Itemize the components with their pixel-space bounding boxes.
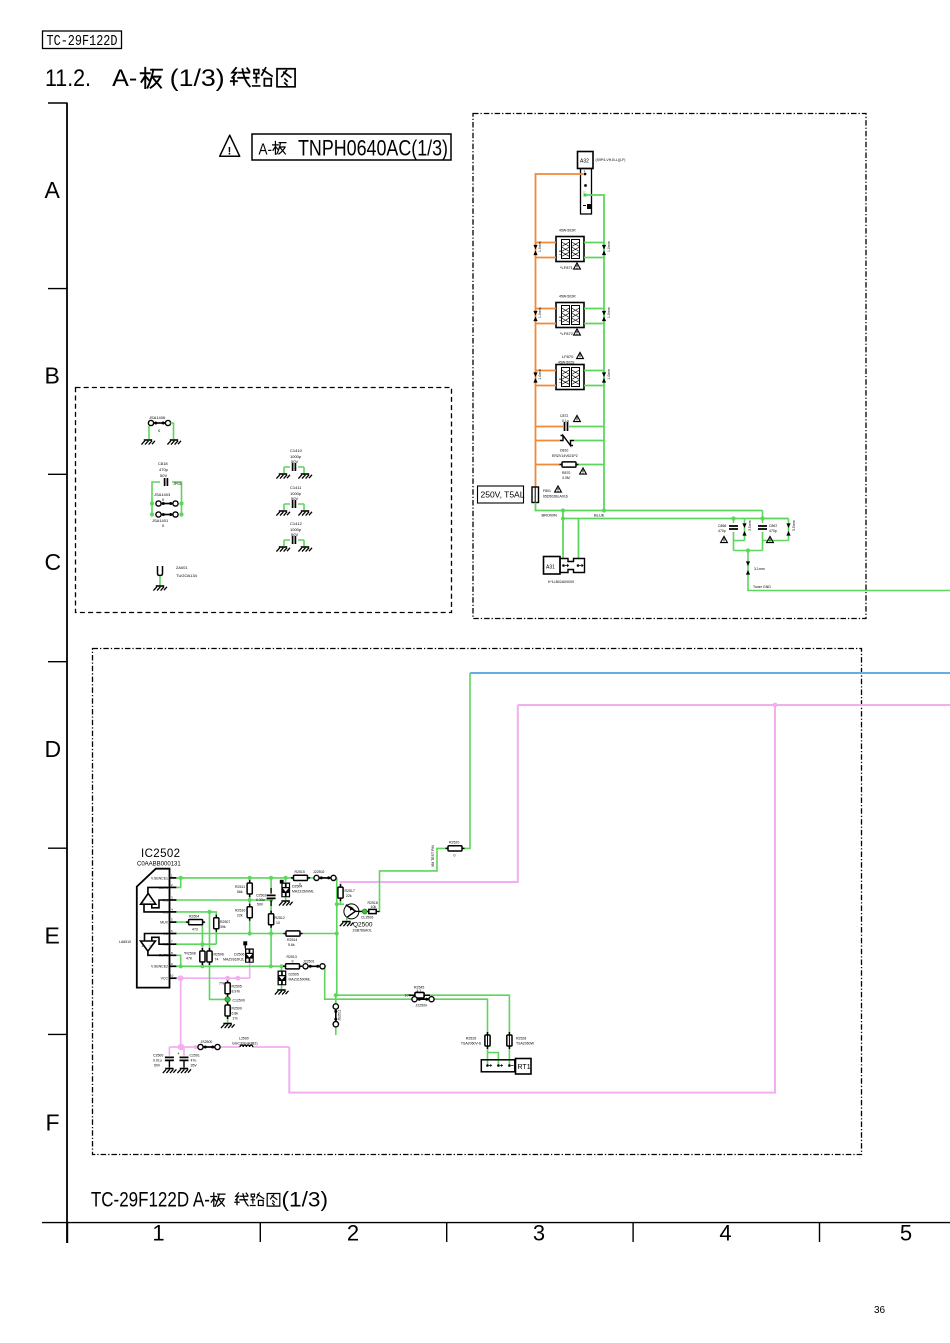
svg-text:TSA2060V-S: TSA2060V-S xyxy=(461,1042,482,1046)
resistor R2514 xyxy=(284,931,303,947)
svg-text:47u: 47u xyxy=(191,1059,197,1063)
svg-text:R2514: R2514 xyxy=(287,938,297,942)
svg-text:+: + xyxy=(177,1051,180,1056)
svg-text:1.0mm: 1.0mm xyxy=(538,241,542,252)
capacitor C2500 xyxy=(153,1047,176,1073)
svg-text:MAZ31500ML: MAZ31500ML xyxy=(292,890,314,894)
connector RT1 xyxy=(481,1059,531,1075)
svg-text:473: 473 xyxy=(192,928,198,932)
green nets around IC2502 xyxy=(176,673,509,1066)
capacitor C866 branch xyxy=(718,516,752,550)
svg-text:R2510: R2510 xyxy=(235,909,245,913)
resistor R870 xyxy=(536,462,605,480)
svg-text:!: ! xyxy=(228,146,232,158)
wire OUT1 riser xyxy=(176,878,180,888)
svg-text:A-: A- xyxy=(259,141,273,158)
pad CL2506 xyxy=(361,909,373,920)
pin names xyxy=(151,876,169,980)
ground xyxy=(279,901,293,906)
wire to A31 pin1 xyxy=(562,511,564,559)
IC2502 audio amp xyxy=(119,848,181,988)
svg-text:0: 0 xyxy=(454,854,456,858)
svg-text:C818: C818 xyxy=(158,461,168,466)
svg-text:2: 2 xyxy=(347,1221,359,1246)
svg-text:10%: 10% xyxy=(405,994,412,998)
svg-text:1: 1 xyxy=(152,1221,164,1246)
svg-text:3.5mm: 3.5mm xyxy=(748,520,752,531)
svg-text:22k: 22k xyxy=(237,914,243,918)
svg-text:J22501: J22501 xyxy=(303,960,315,964)
svg-text:5.6k: 5.6k xyxy=(288,943,295,947)
jumper J22500 xyxy=(412,997,434,1008)
svg-text:50V: 50V xyxy=(160,473,167,478)
dash-dot enclosure xyxy=(93,649,862,1155)
jumper J22502 xyxy=(313,870,336,881)
svg-text:C867: C867 xyxy=(769,524,777,528)
svg-text:R2517: R2517 xyxy=(345,889,355,893)
svg-text:MAZ9162K2L: MAZ9162K2L xyxy=(223,958,244,962)
wire taps LF870 xyxy=(536,371,557,386)
svg-text:R2512: R2512 xyxy=(275,916,285,920)
resistor R2510 xyxy=(235,904,252,921)
svg-text:C0AABB000131: C0AABB000131 xyxy=(137,862,181,868)
svg-text:470p: 470p xyxy=(159,467,169,472)
svg-text:1.0mm: 1.0mm xyxy=(607,307,611,318)
svg-text:TC-29F122D: TC-29F122D xyxy=(47,33,118,50)
wire R2517 tail xyxy=(337,897,341,904)
resistor R2512 xyxy=(269,911,285,928)
resistor R2508 xyxy=(184,948,205,965)
op-amp 1 (apex up) xyxy=(141,893,156,904)
capacitor C2501 xyxy=(177,1047,200,1073)
svg-text:F: F xyxy=(46,1110,60,1136)
svg-text:GGC33G(A3B2): GGC33G(A3B2) xyxy=(232,1042,257,1046)
svg-text:*LF871: *LF871 xyxy=(560,265,574,270)
capacitor C2502 xyxy=(256,888,276,907)
pin stubs xyxy=(170,878,177,978)
net +X.2 xyxy=(176,933,336,935)
svg-text:2A001: 2A001 xyxy=(176,565,188,570)
svg-text:45W-502R: 45W-502R xyxy=(559,229,576,233)
svg-text:47K: 47K xyxy=(186,957,193,961)
svg-text:JS2500: JS2500 xyxy=(201,1040,213,1044)
svg-text:A32: A32 xyxy=(580,159,589,165)
svg-text:IC2502: IC2502 xyxy=(141,848,180,860)
wire taps LF872 xyxy=(536,309,557,324)
wire blue feed xyxy=(563,518,789,520)
resistor R2520 xyxy=(446,841,465,858)
node xyxy=(561,516,565,520)
capacitor C818 with jumpers JSA1403 JSA1401 xyxy=(150,461,184,528)
svg-text:R2515: R2515 xyxy=(295,870,305,874)
svg-text:-X.1: -X.1 xyxy=(162,898,168,902)
svg-text:JS2511: JS2511 xyxy=(338,1009,342,1021)
ground xyxy=(276,511,290,516)
wire OUT2 riser xyxy=(176,955,180,966)
svg-text:10k: 10k xyxy=(371,905,377,909)
svg-text:R2520: R2520 xyxy=(449,841,459,845)
svg-text:R2506: R2506 xyxy=(214,953,224,957)
wire D2504 drop xyxy=(285,878,287,882)
svg-text:C1412: C1412 xyxy=(290,521,303,526)
svg-text:B: B xyxy=(45,363,60,389)
svg-text:C12500: C12500 xyxy=(233,999,245,1003)
zener pack D2505 xyxy=(275,971,311,995)
svg-text:TC-29F122D A-: TC-29F122D A- xyxy=(91,1188,210,1211)
ground xyxy=(221,1024,235,1029)
svg-text:(1/3): (1/3) xyxy=(170,65,225,92)
svg-text:R2528: R2528 xyxy=(516,1037,526,1041)
ground xyxy=(275,990,289,995)
svg-text:K*1LB02A00009: K*1LB02A00009 xyxy=(548,580,574,584)
gauge arrows right xyxy=(602,241,611,255)
resistor R2517 xyxy=(338,884,355,901)
svg-text:0.33u: 0.33u xyxy=(256,898,265,902)
svg-text:1.0mm: 1.0mm xyxy=(538,307,542,318)
resistor R2518 xyxy=(367,901,379,914)
svg-text:*LF872: *LF872 xyxy=(560,331,574,336)
svg-text:3.3M: 3.3M xyxy=(562,476,570,480)
svg-text:9: 9 xyxy=(292,960,294,964)
svg-text:3.1mm: 3.1mm xyxy=(754,567,765,571)
svg-text:35V: 35V xyxy=(191,1064,198,1068)
fuse F801 xyxy=(532,486,568,503)
zener pack D2504 xyxy=(279,880,314,906)
svg-text:OUT2: OUT2 xyxy=(159,954,168,958)
svg-text:R2505: R2505 xyxy=(232,985,242,989)
internal wiring xyxy=(144,887,170,955)
svg-text:MAZ31500ML: MAZ31500ML xyxy=(289,978,311,982)
page title xyxy=(45,65,295,92)
resistor R2507 xyxy=(214,915,231,932)
wire pink VCC row xyxy=(176,962,249,1047)
svg-text:470p: 470p xyxy=(718,529,726,533)
wire pink right loop xyxy=(289,705,775,1093)
capacitor C1411 xyxy=(276,485,312,516)
svg-text:C866: C866 xyxy=(718,524,726,528)
line filter LF872 xyxy=(556,295,584,337)
wire Q2500 base xyxy=(337,903,344,905)
board label box A-ban TNPH0640AC(1/3) xyxy=(252,134,451,160)
svg-text:RT1: RT1 xyxy=(518,1064,531,1071)
jumper JS2511 xyxy=(333,1004,341,1027)
ground xyxy=(141,440,155,445)
wire loop xyxy=(152,482,182,515)
ground xyxy=(340,922,354,927)
svg-text:TUGOA134: TUGOA134 xyxy=(176,573,198,578)
rating box 250V, T5AL xyxy=(478,486,525,503)
net MUX xyxy=(176,922,202,966)
gauge arrows left xyxy=(533,241,542,255)
svg-text:*R2508: *R2508 xyxy=(184,952,196,956)
svg-text:L2500: L2500 xyxy=(239,1037,249,1041)
ground xyxy=(177,1069,191,1074)
svg-text:OUT1: OUT1 xyxy=(159,886,168,890)
svg-text:1.0mm: 1.0mm xyxy=(538,369,542,380)
transistor Q2500 xyxy=(340,904,373,933)
resistor R2515 xyxy=(291,870,310,887)
svg-text:50V: 50V xyxy=(257,903,264,907)
row letters A-F xyxy=(45,177,62,1136)
inductor L2500 xyxy=(232,1037,257,1048)
resistor R2513 xyxy=(283,955,302,969)
warning triangle xyxy=(220,135,240,157)
left frame border xyxy=(48,103,68,1243)
op-amp 2 (apex down) xyxy=(141,941,156,951)
spark gap 2A001 xyxy=(153,565,197,591)
svg-text:4.7: 4.7 xyxy=(417,989,422,993)
wire xyxy=(149,423,174,439)
wire brown feed xyxy=(536,503,763,511)
wire J22501 column down xyxy=(325,966,499,1065)
dashed enclosure xyxy=(76,388,452,613)
svg-text:LA6510: LA6510 xyxy=(119,940,131,944)
wire R2511/R2510 column xyxy=(249,878,251,934)
ground xyxy=(167,440,181,445)
net V.SENCE1 xyxy=(176,877,336,879)
svg-text:R2509: R2509 xyxy=(232,1007,242,1011)
svg-text:C: C xyxy=(45,549,62,575)
svg-text:(1/3): (1/3) xyxy=(282,1188,329,1211)
svg-text:R2511: R2511 xyxy=(235,885,245,889)
svg-text:1.0mm: 1.0mm xyxy=(607,369,611,380)
svg-text:A-: A- xyxy=(112,65,137,92)
svg-text:J22500: J22500 xyxy=(416,1004,428,1008)
wire to A31 pin2 xyxy=(578,519,580,559)
resistor R2545 xyxy=(405,986,431,998)
wire mains return (green) from A32 pin3 xyxy=(586,195,604,511)
wire +X.1 column xyxy=(210,912,226,1000)
svg-text:JSA1401: JSA1401 xyxy=(152,518,169,523)
varistor D810 xyxy=(536,436,605,459)
pin numbers xyxy=(170,873,174,977)
svg-text:ERZV14V621P2: ERZV14V621P2 xyxy=(552,454,578,458)
svg-text:2SB766AOL: 2SB766AOL xyxy=(353,929,373,933)
svg-text:C2501: C2501 xyxy=(190,1054,200,1058)
svg-text:F801: F801 xyxy=(543,489,551,493)
svg-text:1.0mm: 1.0mm xyxy=(607,241,611,252)
wire VCC loop (pink) top xyxy=(518,704,950,706)
connector A31 xyxy=(544,557,585,585)
model number box TC-29F122D xyxy=(43,31,122,50)
svg-text:D: D xyxy=(45,736,62,762)
jumper J22501 xyxy=(303,960,325,969)
resistor R2511 xyxy=(235,880,252,897)
svg-text:JSA1406: JSA1406 xyxy=(149,415,166,420)
svg-text:7%: 7% xyxy=(219,982,224,986)
capacitor C1410 xyxy=(276,448,312,479)
capacitor C1412 xyxy=(276,521,312,552)
pink junction dots xyxy=(178,975,241,1050)
column numbers xyxy=(152,1221,912,1246)
svg-text:D2505: D2505 xyxy=(289,973,299,977)
wire taps LF871 xyxy=(536,243,557,258)
ground xyxy=(163,1069,177,1074)
svg-text:6.8k: 6.8k xyxy=(232,1012,239,1016)
svg-text:C1411: C1411 xyxy=(290,485,302,490)
resistor R2506 xyxy=(207,948,224,965)
svg-text:VCC: VCC xyxy=(161,977,169,981)
wire C2502/R2512 column xyxy=(270,878,272,966)
svg-text:65D502BLA916: 65D502BLA916 xyxy=(543,495,568,499)
svg-text:D810: D810 xyxy=(560,449,568,453)
svg-text:470p: 470p xyxy=(769,529,777,533)
zener pack D2506 xyxy=(223,941,254,962)
svg-text:BROWN: BROWN xyxy=(542,513,557,518)
svg-text:10: 10 xyxy=(276,921,280,925)
svg-text:MUX: MUX xyxy=(160,921,168,925)
resistor R2509 xyxy=(221,1002,242,1028)
jumper JSA1406 xyxy=(141,415,181,445)
line filter LF871 xyxy=(556,229,584,271)
capacitor C867 branch xyxy=(758,511,796,551)
wire JS2511 stub xyxy=(335,995,337,1035)
svg-text:10: 10 xyxy=(170,974,174,978)
svg-text:LF870: LF870 xyxy=(562,354,574,359)
node xyxy=(602,508,606,512)
svg-text:J22502: J22502 xyxy=(313,870,325,874)
footer caption xyxy=(91,1188,328,1211)
ground xyxy=(153,586,167,591)
svg-text:50V: 50V xyxy=(154,1064,161,1068)
svg-text:250V, T5AL: 250V, T5AL xyxy=(481,490,525,500)
svg-text:45W-502R: 45W-502R xyxy=(559,295,576,299)
resistor R2526 xyxy=(461,1032,490,1049)
connector A32 xyxy=(578,152,626,215)
svg-text:3: 3 xyxy=(533,1221,545,1246)
bottom ruler xyxy=(42,1223,950,1243)
svg-text:A: A xyxy=(45,177,61,203)
wire pink bottom row xyxy=(169,1046,289,1048)
svg-text:C1410: C1410 xyxy=(290,448,303,453)
svg-text:39k: 39k xyxy=(220,925,226,929)
jumper JS2500 xyxy=(198,1040,220,1050)
ground xyxy=(298,474,312,479)
wire VM out (blue) xyxy=(470,672,950,674)
junction dots xyxy=(150,501,184,516)
wire tuner ground drop xyxy=(748,551,950,591)
svg-text:R2507: R2507 xyxy=(220,920,230,924)
svg-text:Tuner GND: Tuner GND xyxy=(753,585,771,589)
wire mains live (orange) xyxy=(536,174,584,487)
wire D2505 drop xyxy=(281,966,283,970)
ground xyxy=(276,474,290,479)
svg-text:R2513: R2513 xyxy=(287,955,297,959)
svg-text:36: 36 xyxy=(874,1305,886,1316)
node xyxy=(746,548,750,552)
line filter LF870 xyxy=(556,352,584,389)
svg-text:+X.1: +X.1 xyxy=(161,910,168,914)
svg-text:JPG1: JPG1 xyxy=(173,482,182,486)
net V.SENCE2 xyxy=(176,965,324,967)
svg-text:C2502: C2502 xyxy=(256,894,266,898)
pad C12500 xyxy=(225,997,245,1003)
ground xyxy=(298,547,312,552)
net -X.2 xyxy=(176,943,216,945)
resistor R2505 xyxy=(219,978,242,1022)
svg-text:0.01u: 0.01u xyxy=(153,1059,162,1063)
svg-text:VM TEST PIN: VM TEST PIN xyxy=(431,845,435,867)
node xyxy=(561,508,565,512)
svg-text:8.97k: 8.97k xyxy=(232,990,241,994)
svg-text:R870: R870 xyxy=(562,471,570,475)
resistor R2504 xyxy=(186,915,205,932)
svg-text:R2526: R2526 xyxy=(466,1037,476,1041)
dash-dot enclosure xyxy=(473,114,866,619)
wire cap commons xyxy=(734,550,763,552)
svg-text:22k: 22k xyxy=(346,894,352,898)
node pink xyxy=(773,703,778,708)
capacitor C872 xyxy=(536,414,605,431)
svg-text:3.5mm: 3.5mm xyxy=(792,520,796,531)
svg-text:TNPH0640AC(1/3): TNPH0640AC(1/3) xyxy=(298,135,448,160)
wire Q2500 collector to R2520 riser xyxy=(359,673,470,912)
svg-text:5: 5 xyxy=(900,1221,912,1246)
net +X.1 xyxy=(176,912,216,944)
capacitor C818 xyxy=(165,478,168,486)
wire J22502 column down xyxy=(337,878,510,1066)
svg-text:-X.2: -X.2 xyxy=(162,943,168,947)
svg-text:BLUE: BLUE xyxy=(594,513,605,518)
svg-text:4: 4 xyxy=(719,1221,731,1246)
resistor R2528 xyxy=(507,1032,535,1049)
svg-text:Q2500: Q2500 xyxy=(353,922,373,929)
svg-text:A31: A31 xyxy=(546,565,555,571)
svg-text:56k: 56k xyxy=(237,890,243,894)
svg-text:L.F: L.F xyxy=(559,250,563,255)
svg-text:1%: 1% xyxy=(233,1017,238,1021)
svg-text:V.SENCE1: V.SENCE1 xyxy=(151,876,168,880)
svg-text:11.2.: 11.2. xyxy=(45,65,91,92)
svg-text:L.F: L.F xyxy=(559,316,563,321)
jumper JSA1401 xyxy=(156,512,178,517)
wire pink drop to R2517 xyxy=(341,705,518,888)
svg-text:E: E xyxy=(45,923,60,949)
net -X.1 xyxy=(176,899,271,901)
svg-text:V.SENCE2: V.SENCE2 xyxy=(151,965,168,969)
svg-text:L.F: L.F xyxy=(559,378,563,383)
svg-text:0: 0 xyxy=(299,883,301,887)
ground xyxy=(276,547,290,552)
svg-text:+X.2: +X.2 xyxy=(161,932,168,936)
svg-text:R2504: R2504 xyxy=(189,915,199,919)
junction dots green xyxy=(179,876,339,998)
svg-text:C872: C872 xyxy=(560,414,568,418)
svg-text:(S9P4-VH-B-L)(LF): (S9P4-VH-B-L)(LF) xyxy=(596,158,626,162)
svg-text:D2506: D2506 xyxy=(234,953,244,957)
ground xyxy=(298,511,312,516)
svg-text:74: 74 xyxy=(215,958,219,962)
svg-text:CL2506: CL2506 xyxy=(361,916,373,920)
svg-text:TSA2060W: TSA2060W xyxy=(516,1042,535,1046)
svg-text:C2500: C2500 xyxy=(153,1054,163,1058)
